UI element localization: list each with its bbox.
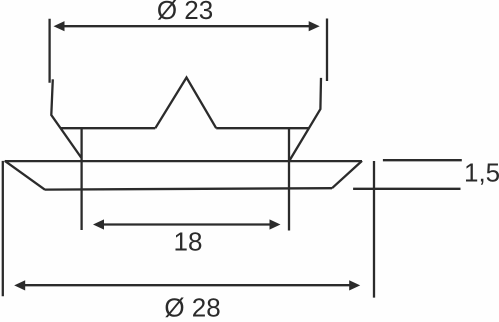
arrowhead 18 right xyxy=(270,219,281,229)
dim Ø23 dimension line xyxy=(56,25,317,27)
stem right edge / dim 18 extension right xyxy=(288,128,290,230)
flange right bevel xyxy=(332,161,362,188)
arrowhead Ø23 left xyxy=(54,21,65,31)
dim Ø28 dimension line xyxy=(17,284,357,286)
dim Ø28 extension line right xyxy=(373,161,375,298)
arrowhead Ø23 right xyxy=(309,21,320,31)
cup right wall xyxy=(290,78,322,161)
dim 18 dimension line xyxy=(96,223,278,225)
arrowhead Ø28 right xyxy=(349,280,360,290)
leader 1,5 bottom xyxy=(353,188,460,190)
arrowhead 18 left xyxy=(93,219,104,229)
flange left bevel xyxy=(5,161,45,190)
flange bottom edge xyxy=(45,188,332,189)
svg-text:Ø 23: Ø 23 xyxy=(157,0,213,25)
cup left wall xyxy=(51,79,81,157)
center peak xyxy=(155,78,216,129)
dim Ø23 extension line right xyxy=(326,19,328,82)
stem left edge / dim 18 extension left xyxy=(80,128,82,230)
flange top edge xyxy=(5,160,362,162)
dim Ø28 extension line left xyxy=(2,161,4,296)
leader 1,5 top xyxy=(383,159,462,161)
cup floor left segment xyxy=(60,127,155,129)
dim Ø23 extension line left xyxy=(48,19,50,83)
arrowhead Ø28 left xyxy=(14,280,25,290)
svg-text:Ø 28: Ø 28 xyxy=(164,293,220,322)
svg-text:1,5: 1,5 xyxy=(464,158,499,188)
svg-text:18: 18 xyxy=(174,226,203,256)
cup floor right segment xyxy=(216,127,308,129)
